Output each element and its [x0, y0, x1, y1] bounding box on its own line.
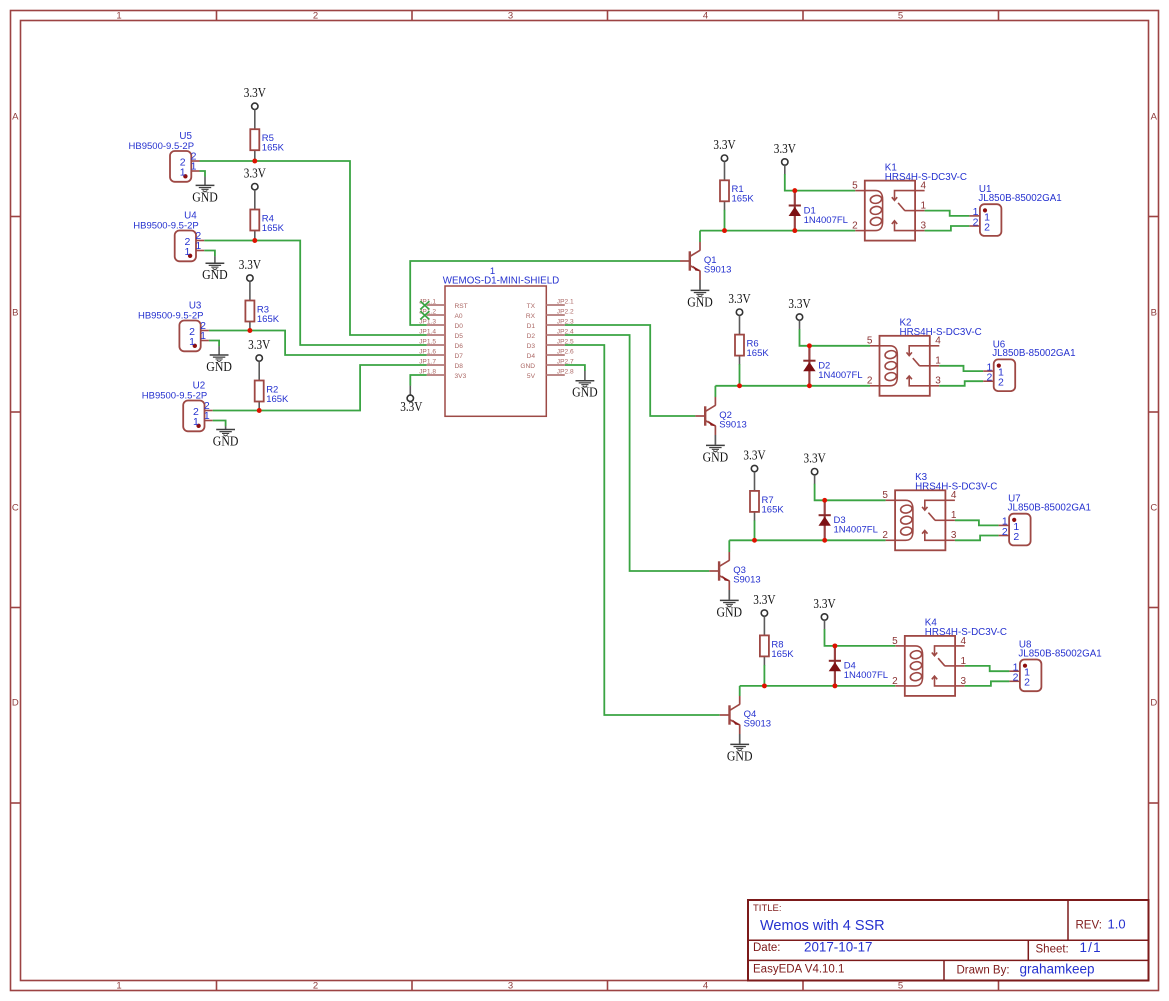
svg-text:1: 1: [116, 11, 121, 22]
svg-text:3.3V: 3.3V: [713, 138, 735, 153]
svg-text:5V: 5V: [527, 373, 536, 380]
svg-text:GND: GND: [202, 267, 228, 282]
svg-text:3.3V: 3.3V: [244, 167, 266, 182]
svg-text:JL850B-85002GA1: JL850B-85002GA1: [1018, 648, 1101, 659]
svg-text:Sheet:: Sheet:: [1036, 944, 1069, 956]
svg-text:S9013: S9013: [733, 575, 760, 586]
svg-text:3.3V: 3.3V: [788, 297, 810, 312]
svg-text:HB9500-9.5-2P: HB9500-9.5-2P: [142, 391, 207, 402]
svg-text:RX: RX: [526, 313, 536, 320]
svg-text:HRS4H-S-DC3V-C: HRS4H-S-DC3V-C: [900, 327, 982, 338]
svg-text:1N4007FL: 1N4007FL: [818, 370, 862, 381]
svg-text:GND: GND: [572, 385, 598, 400]
svg-text:1N4007FL: 1N4007FL: [804, 215, 848, 226]
svg-text:3.3V: 3.3V: [400, 400, 422, 415]
svg-text:2: 2: [882, 530, 888, 541]
svg-text:2: 2: [313, 981, 318, 992]
svg-text:165K: 165K: [732, 194, 755, 205]
svg-text:2: 2: [984, 221, 990, 233]
svg-text:WEMOS-D1-MINI-SHIELD: WEMOS-D1-MINI-SHIELD: [443, 276, 559, 287]
svg-text:2: 2: [892, 676, 898, 687]
svg-text:D3: D3: [527, 343, 536, 350]
svg-text:1: 1: [189, 336, 195, 348]
svg-text:grahamkeep: grahamkeep: [1020, 962, 1095, 977]
svg-text:3V3: 3V3: [455, 373, 467, 380]
svg-text:2: 2: [1013, 531, 1019, 543]
svg-text:1: 1: [200, 330, 206, 342]
svg-text:EasyEDA V4.10.1: EasyEDA V4.10.1: [753, 963, 844, 975]
svg-text:2: 2: [1013, 672, 1019, 684]
svg-text:A: A: [1151, 112, 1158, 123]
svg-text:D2: D2: [527, 333, 536, 340]
svg-text:1.0: 1.0: [1108, 917, 1126, 932]
svg-text:D8: D8: [455, 363, 464, 370]
svg-text:HRS4H-S-DC3V-C: HRS4H-S-DC3V-C: [885, 172, 967, 183]
svg-text:3: 3: [508, 981, 513, 992]
svg-text:GND: GND: [520, 363, 535, 370]
svg-text:GND: GND: [206, 359, 232, 374]
svg-text:165K: 165K: [262, 143, 285, 154]
svg-text:1/1: 1/1: [1080, 940, 1102, 955]
svg-text:D7: D7: [455, 353, 464, 360]
svg-text:165K: 165K: [257, 314, 280, 325]
svg-text:3.3V: 3.3V: [728, 292, 750, 307]
svg-text:5: 5: [898, 11, 903, 22]
svg-text:A: A: [12, 112, 19, 123]
svg-text:5: 5: [867, 336, 873, 347]
svg-text:1N4007FL: 1N4007FL: [834, 525, 878, 536]
svg-text:C: C: [1150, 503, 1157, 514]
svg-text:GND: GND: [717, 604, 743, 619]
svg-text:2: 2: [1002, 526, 1008, 538]
svg-text:5: 5: [852, 181, 858, 192]
svg-text:165K: 165K: [771, 649, 794, 660]
svg-text:TX: TX: [527, 303, 536, 310]
svg-text:D4: D4: [527, 353, 536, 360]
svg-text:2: 2: [973, 216, 979, 228]
svg-text:RST: RST: [455, 303, 468, 310]
svg-text:D1: D1: [527, 323, 536, 330]
svg-text:D0: D0: [455, 323, 464, 330]
svg-text:Drawn By:: Drawn By:: [957, 964, 1010, 976]
svg-text:5: 5: [882, 490, 888, 501]
svg-text:3.3V: 3.3V: [774, 142, 796, 157]
svg-text:S9013: S9013: [744, 719, 771, 730]
svg-text:Wemos with 4 SSR: Wemos with 4 SSR: [760, 918, 885, 934]
svg-text:5: 5: [892, 636, 898, 647]
svg-text:3.3V: 3.3V: [248, 338, 270, 353]
svg-text:165K: 165K: [762, 504, 785, 515]
svg-text:A0: A0: [455, 313, 463, 320]
svg-text:4: 4: [703, 981, 708, 992]
svg-text:165K: 165K: [266, 394, 289, 405]
svg-text:1: 1: [204, 410, 210, 422]
svg-text:JP2.1: JP2.1: [557, 299, 574, 306]
svg-text:S9013: S9013: [704, 265, 731, 276]
svg-text:Date:: Date:: [753, 942, 781, 954]
svg-text:B: B: [12, 308, 18, 319]
svg-text:GND: GND: [727, 748, 753, 763]
svg-text:HB9500-9.5-2P: HB9500-9.5-2P: [138, 311, 203, 322]
svg-text:JP2.8: JP2.8: [557, 369, 574, 376]
svg-text:1: 1: [184, 246, 190, 258]
svg-text:HRS4H-S-DC3V-C: HRS4H-S-DC3V-C: [915, 482, 997, 493]
svg-text:4: 4: [703, 11, 708, 22]
svg-text:GND: GND: [192, 189, 218, 204]
svg-text:HB9500-9.5-2P: HB9500-9.5-2P: [129, 141, 194, 152]
svg-text:3.3V: 3.3V: [743, 448, 765, 463]
svg-text:JL850B-85002GA1: JL850B-85002GA1: [1008, 503, 1091, 514]
svg-text:JL850B-85002GA1: JL850B-85002GA1: [978, 193, 1061, 204]
svg-text:TITLE:: TITLE:: [753, 903, 782, 914]
svg-text:1: 1: [191, 161, 197, 173]
svg-text:5: 5: [898, 981, 903, 992]
svg-text:165K: 165K: [262, 223, 285, 234]
svg-text:3: 3: [508, 11, 513, 22]
svg-text:JP2.2: JP2.2: [557, 309, 574, 316]
svg-text:GND: GND: [213, 434, 239, 449]
svg-text:D5: D5: [455, 333, 464, 340]
svg-text:165K: 165K: [747, 348, 770, 359]
svg-text:JP2.6: JP2.6: [557, 349, 574, 356]
svg-text:3.3V: 3.3V: [753, 593, 775, 608]
svg-text:1: 1: [193, 416, 199, 428]
svg-text:JL850B-85002GA1: JL850B-85002GA1: [992, 348, 1075, 359]
svg-text:2: 2: [986, 372, 992, 384]
svg-text:2: 2: [867, 376, 873, 387]
svg-text:D: D: [12, 698, 19, 709]
svg-text:3.3V: 3.3V: [804, 452, 826, 467]
svg-text:C: C: [12, 503, 19, 514]
svg-text:1: 1: [180, 166, 186, 178]
svg-text:B: B: [1151, 308, 1157, 319]
svg-text:2: 2: [313, 11, 318, 22]
svg-text:2017-10-17: 2017-10-17: [804, 940, 873, 955]
svg-text:REV:: REV:: [1076, 920, 1102, 932]
svg-text:S9013: S9013: [719, 420, 746, 431]
svg-text:3.3V: 3.3V: [813, 597, 835, 612]
svg-text:2: 2: [998, 377, 1004, 389]
svg-text:1: 1: [195, 240, 201, 252]
svg-text:D6: D6: [455, 343, 464, 350]
svg-text:2: 2: [1024, 677, 1030, 689]
svg-text:HB9500-9.5-2P: HB9500-9.5-2P: [133, 221, 198, 232]
svg-text:GND: GND: [703, 449, 729, 464]
svg-text:1N4007FL: 1N4007FL: [844, 670, 888, 681]
svg-text:2: 2: [852, 221, 858, 232]
svg-text:GND: GND: [687, 294, 713, 309]
svg-text:3.3V: 3.3V: [244, 86, 266, 101]
svg-text:D: D: [1150, 698, 1157, 709]
svg-text:3.3V: 3.3V: [239, 258, 261, 273]
svg-text:1: 1: [116, 981, 121, 992]
svg-text:HRS4H-S-DC3V-C: HRS4H-S-DC3V-C: [925, 627, 1007, 638]
